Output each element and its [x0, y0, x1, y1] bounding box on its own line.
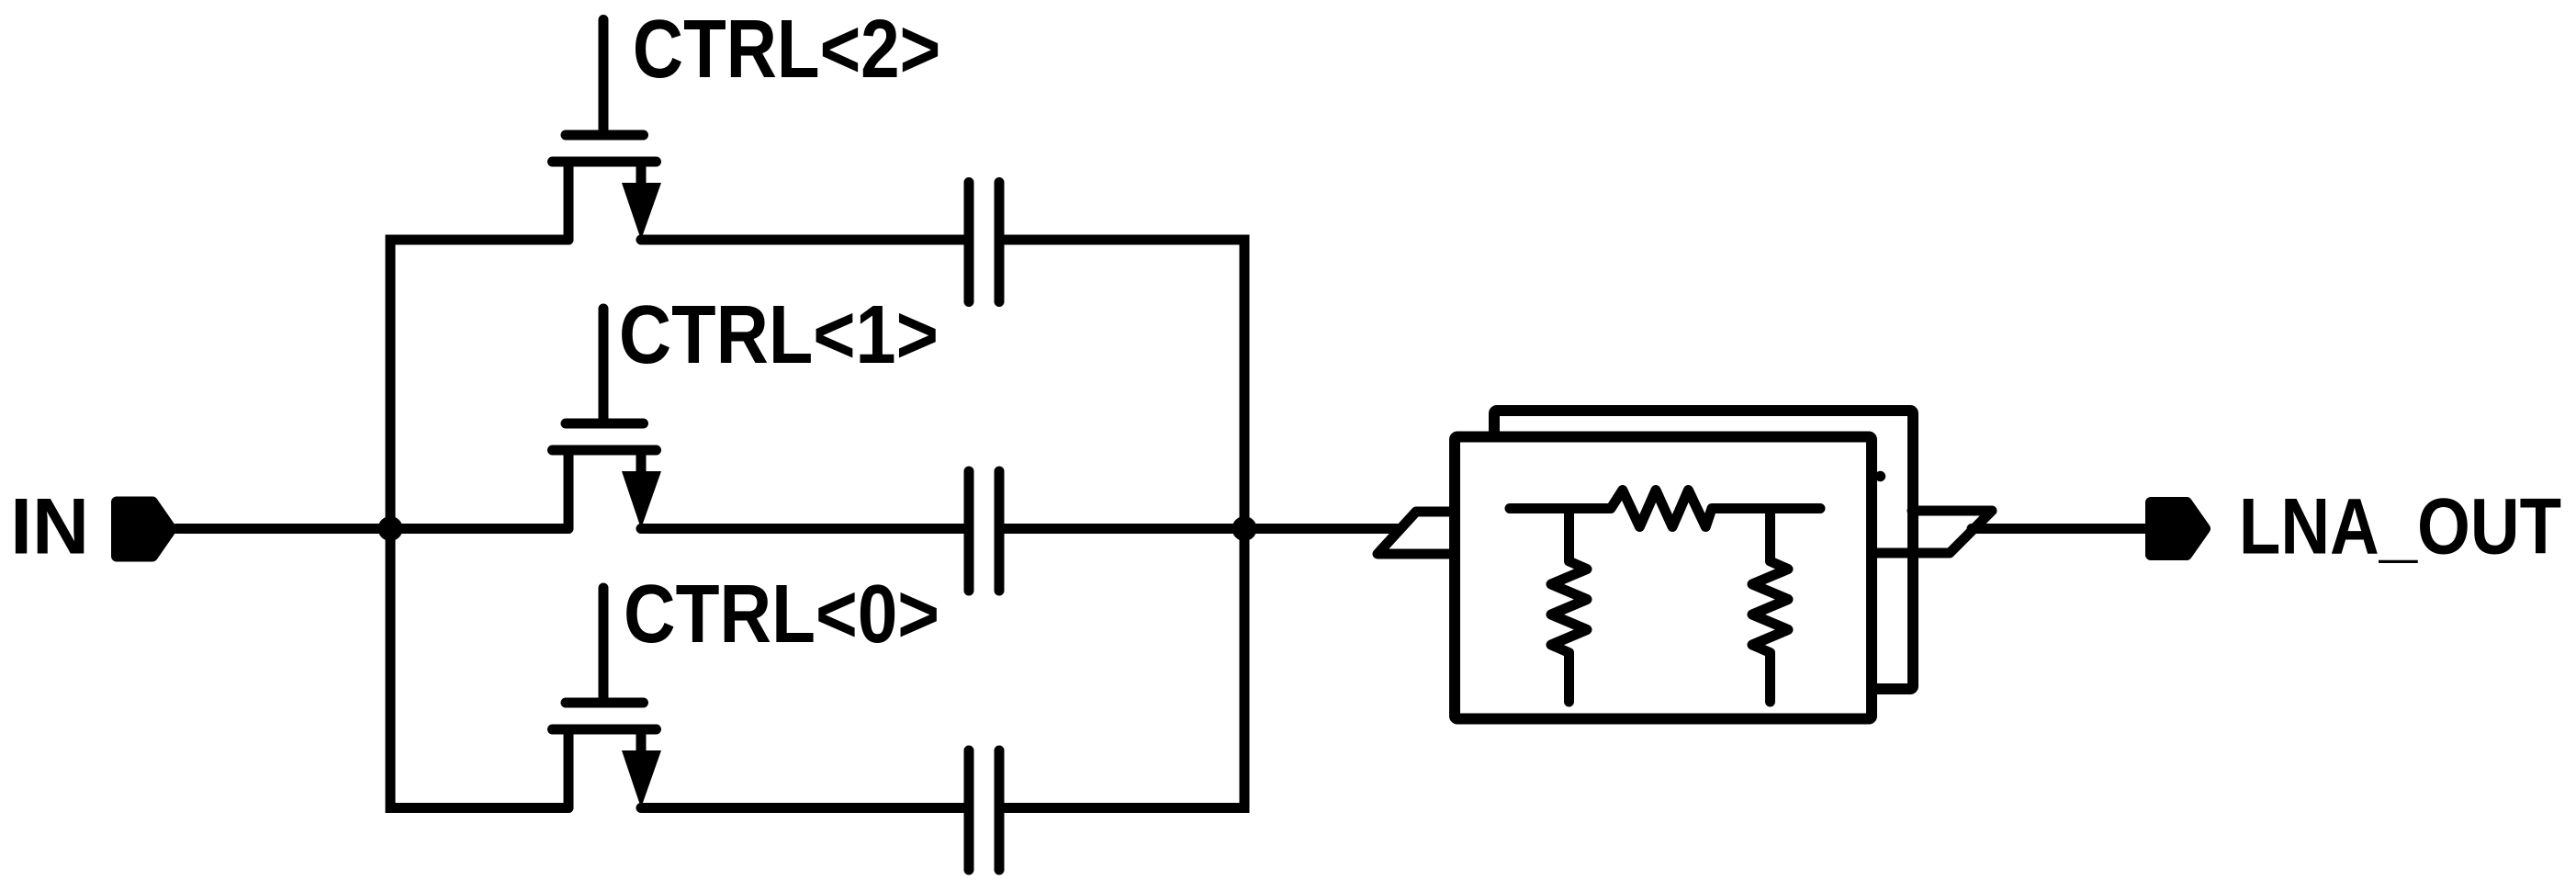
wire top branch left: [390, 235, 568, 245]
amplifier U1 front box: [1455, 437, 1872, 719]
output slash: [1872, 511, 1992, 553]
wire IN to middle transistor source: [176, 524, 568, 534]
back rail end dot: [1875, 471, 1885, 481]
resistor R3 right shunt: [1752, 509, 1788, 703]
wire right bus vertical: [1240, 240, 1250, 808]
resistor R2 left shunt: [1551, 509, 1587, 703]
wire top branch mid: [641, 235, 963, 245]
transistor M2: [553, 20, 662, 241]
svg-text:CTRL<2>: CTRL<2>: [633, 2, 940, 95]
wire amplifier to output pin: [1972, 524, 2145, 534]
wire middle branch mid: [641, 524, 963, 534]
svg-text:LNA_OUT: LNA_OUT: [2239, 483, 2561, 571]
node B junction dot right: [1232, 516, 1257, 541]
pin IN: [117, 502, 172, 557]
wire middle branch right: [1005, 524, 1244, 534]
node A junction dot left: [378, 516, 403, 541]
pin LNA_OUT: [2151, 502, 2205, 555]
capacitor C2: [969, 183, 999, 302]
transistor M1: [553, 309, 662, 529]
resistor R1 top rail: [1510, 491, 1820, 527]
wire top branch right: [1005, 235, 1244, 245]
amplifier U1 back box: [1494, 411, 1913, 689]
wire to amplifier: [1244, 524, 1398, 534]
wire bottom branch right: [1005, 803, 1244, 813]
capacitor C1: [969, 471, 999, 591]
svg-text:CTRL<0>: CTRL<0>: [624, 568, 939, 660]
wire bottom branch mid: [641, 803, 963, 813]
svg-text:IN: IN: [10, 483, 89, 571]
svg-text:CTRL<1>: CTRL<1>: [619, 288, 939, 380]
transistor M0: [553, 588, 662, 808]
wire left bus vertical: [386, 240, 396, 808]
capacitor C0: [969, 750, 999, 870]
wire bottom branch left: [390, 803, 568, 813]
input slash: [1378, 512, 1455, 554]
